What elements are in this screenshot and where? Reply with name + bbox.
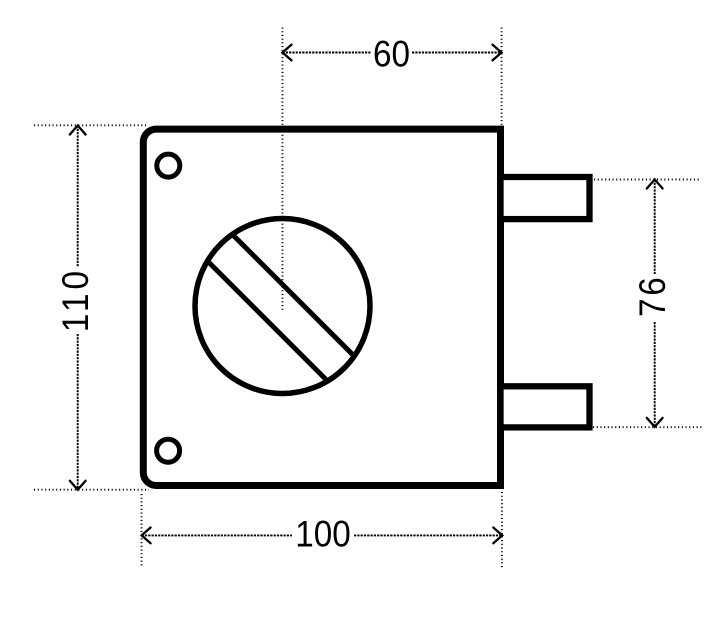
arrowhead 110 top	[70, 126, 86, 135]
arrowhead 110 bottom	[70, 481, 86, 490]
knob circle	[195, 219, 370, 394]
slot line upper	[232, 234, 354, 356]
extension line 76 bottom horizontal	[593, 426, 703, 428]
body outline (rounded left corners)	[143, 129, 500, 485]
top tab	[501, 177, 590, 219]
arrowhead 100 right	[493, 528, 502, 544]
extension line top-left horizontal	[34, 124, 146, 126]
arrowhead 76 bottom	[647, 418, 663, 427]
slot line lower	[208, 261, 328, 381]
bottom tab	[501, 386, 590, 427]
extension line left vertical (100)	[141, 494, 143, 568]
extension line centre vertical (60)	[282, 28, 284, 311]
arrowhead 76 top	[647, 180, 663, 189]
svg-text:76: 76	[632, 275, 673, 317]
extension line right vertical bottom (100)	[501, 492, 503, 568]
svg-text:100: 100	[295, 514, 351, 555]
dimension line 76 shaft	[654, 180, 656, 275]
arrowhead 60 left	[283, 45, 292, 61]
arrowhead 100 left	[142, 528, 151, 544]
svg-text:110: 110	[55, 267, 96, 332]
mounting hole bottom-left	[157, 439, 180, 462]
extension line bottom-left horizontal	[34, 489, 149, 491]
arrowhead 60 right	[493, 45, 502, 61]
extension line 76 top horizontal	[594, 179, 699, 181]
dimension line 110 shaft	[77, 126, 79, 268]
dimension line 100 shaft	[142, 534, 292, 536]
mounting hole top-left	[157, 154, 180, 177]
svg-text:60: 60	[373, 34, 410, 75]
dimension line 60 shaft	[283, 52, 372, 54]
extension line right vertical top (60)	[501, 28, 503, 126]
